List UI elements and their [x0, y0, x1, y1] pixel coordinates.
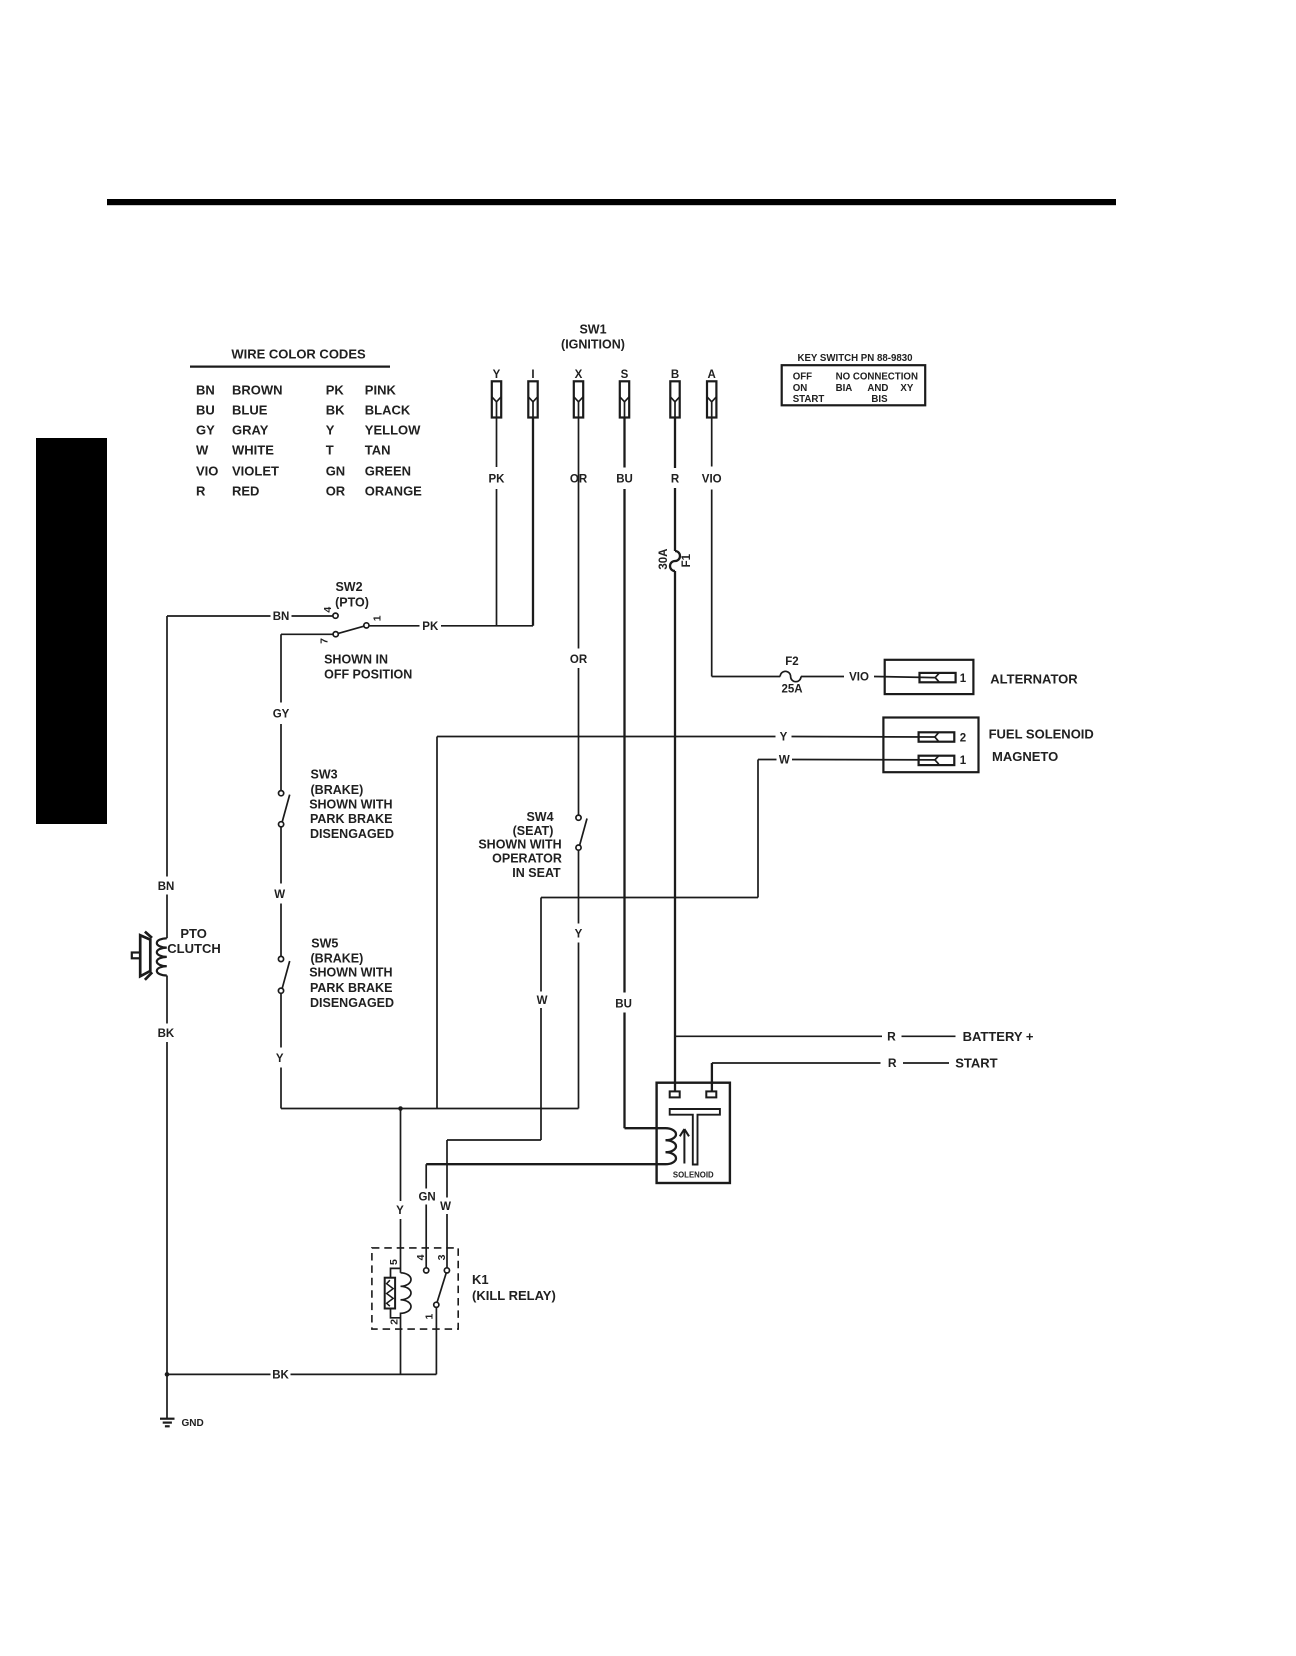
svg-text:TAN: TAN [365, 443, 391, 458]
svg-text:(IGNITION): (IGNITION) [561, 338, 625, 352]
svg-text:DISENGAGED: DISENGAGED [310, 827, 394, 841]
wire W to magneto pin 1 [758, 759, 777, 761]
wire R start riser [711, 1063, 713, 1091]
svg-text:25A: 25A [781, 684, 802, 696]
svg-text:Y: Y [575, 928, 583, 940]
svg-text:WIRE COLOR CODES: WIRE COLOR CODES [231, 347, 366, 362]
solenoid plunger T [670, 1109, 720, 1165]
svg-text:BLUE: BLUE [232, 403, 268, 418]
svg-text:WHITE: WHITE [232, 443, 274, 458]
wire I column from SW1-I (PK) [532, 418, 534, 626]
SW1 terminal S (blade connector) [620, 369, 629, 418]
svg-text:BIS: BIS [871, 394, 888, 405]
magneto pin 1 [919, 755, 967, 767]
svg-text:SHOWN IN: SHOWN IN [324, 652, 388, 666]
wire BN riser (left) [166, 616, 168, 877]
svg-text:X: X [575, 369, 583, 381]
svg-text:BN: BN [273, 611, 290, 623]
svg-text:R: R [887, 1030, 896, 1044]
svg-text:1: 1 [424, 1314, 436, 1320]
svg-text:PARK BRAKE: PARK BRAKE [310, 981, 392, 995]
svg-text:4: 4 [415, 1254, 427, 1260]
wire A column from SW1-A (VIO) [711, 418, 713, 467]
svg-text:Y: Y [396, 1205, 404, 1217]
svg-text:BU: BU [196, 403, 215, 418]
svg-text:VIO: VIO [196, 464, 218, 479]
svg-text:S: S [621, 369, 629, 381]
switch SW3 (BRAKE) [279, 791, 290, 827]
svg-text:SW4: SW4 [526, 810, 553, 824]
SW2 pin 1 [364, 623, 369, 628]
page header rule [107, 199, 1116, 205]
SW1 terminal B (blade connector) [670, 369, 679, 418]
left black tab bar [36, 438, 107, 824]
K1 coil [401, 1273, 412, 1375]
svg-text:7: 7 [319, 638, 331, 644]
svg-text:(KILL RELAY): (KILL RELAY) [472, 1288, 556, 1303]
svg-text:FUEL SOLENOID: FUEL SOLENOID [989, 726, 1094, 741]
svg-text:PK: PK [422, 621, 439, 633]
SW2 pin 4 [333, 613, 338, 618]
svg-text:K1: K1 [472, 1272, 489, 1287]
SW5 labels [309, 936, 394, 1010]
fuel solenoid / magneto connector box [883, 718, 978, 773]
svg-text:GY: GY [196, 423, 215, 438]
solenoid coil with BU feed and GN return [426, 1128, 676, 1164]
svg-text:IN SEAT: IN SEAT [512, 866, 561, 880]
svg-text:OR: OR [570, 654, 588, 666]
wire GY stub to SW2 pin 7 [281, 633, 333, 635]
svg-text:BK: BK [158, 1028, 175, 1040]
svg-text:W: W [537, 995, 548, 1007]
wire GN riser to K1 pin 4 [425, 1164, 427, 1188]
svg-text:PK: PK [326, 383, 345, 398]
alternator connector box [885, 660, 974, 694]
svg-text:BN: BN [196, 383, 215, 398]
svg-text:F2: F2 [785, 656, 798, 668]
wire from K1 pin 1 to ground bus [435, 1307, 437, 1374]
svg-text:(BRAKE): (BRAKE) [311, 783, 364, 797]
K1 labels [472, 1272, 556, 1303]
SW2 switch arm [338, 626, 364, 633]
wire PK from SW2 pin 1 to I column [369, 625, 419, 627]
svg-text:(SEAT): (SEAT) [513, 824, 554, 838]
svg-text:GND: GND [182, 1418, 204, 1429]
svg-text:OR: OR [326, 484, 346, 499]
svg-text:Y: Y [326, 423, 335, 438]
wire R to START [712, 1062, 881, 1064]
svg-text:R: R [888, 1056, 897, 1070]
svg-text:AND: AND [867, 383, 888, 394]
svg-text:PARK BRAKE: PARK BRAKE [310, 812, 392, 826]
svg-text:VIOLET: VIOLET [232, 464, 279, 479]
svg-text:RED: RED [232, 484, 259, 499]
svg-text:Y: Y [780, 732, 788, 744]
svg-text:ALTERNATOR: ALTERNATOR [990, 671, 1078, 686]
SW1 terminal I (blade connector) [528, 369, 537, 418]
svg-text:YELLOW: YELLOW [365, 423, 421, 438]
svg-text:OFF POSITION: OFF POSITION [324, 667, 412, 681]
svg-text:SHOWN WITH: SHOWN WITH [309, 965, 392, 979]
svg-text:PTO: PTO [180, 926, 207, 941]
svg-text:R: R [671, 474, 680, 486]
K1 resistor (parallel) [385, 1268, 401, 1317]
SW1 terminal A (blade connector) [707, 369, 716, 418]
svg-text:START: START [793, 394, 825, 405]
svg-text:ON: ON [793, 383, 808, 394]
legend underline [190, 366, 390, 368]
solenoid plunger arrow [680, 1129, 689, 1164]
solenoid battery pin [670, 1091, 680, 1097]
svg-text:W: W [779, 755, 790, 767]
wire Y riser from fuel solenoid run down [436, 737, 438, 1109]
svg-text:(BRAKE): (BRAKE) [311, 951, 364, 965]
wire S column from SW1-S (BU) [623, 418, 625, 468]
junction Y tap [398, 1106, 403, 1111]
svg-text:VIO: VIO [702, 474, 722, 486]
wire Y riser to K1 pin 5 [400, 1109, 402, 1202]
wire Y below SW5 [280, 993, 282, 1047]
svg-text:BATTERY +: BATTERY + [963, 1029, 1034, 1044]
wire VIO corner to F2 [711, 676, 713, 678]
wire BN from left riser to SW2 pin 4 [167, 615, 271, 617]
PTO clutch [132, 932, 167, 980]
svg-text:B: B [671, 369, 679, 381]
PTO CLUTCH labels [167, 926, 220, 956]
svg-text:MAGNETO: MAGNETO [992, 749, 1058, 764]
svg-text:START: START [955, 1056, 997, 1071]
svg-text:F1: F1 [681, 553, 693, 567]
SW1 terminal X (blade connector) [574, 369, 583, 418]
svg-text:ORANGE: ORANGE [365, 484, 422, 499]
svg-text:BN: BN [158, 881, 175, 893]
svg-text:BROWN: BROWN [232, 383, 283, 398]
svg-text:SHOWN WITH: SHOWN WITH [478, 837, 561, 851]
fuse F2 25A [780, 656, 802, 696]
starter solenoid box [657, 1083, 730, 1183]
svg-text:GREEN: GREEN [365, 464, 411, 479]
svg-text:4: 4 [322, 607, 334, 613]
wire R to BATTERY + [675, 1035, 882, 1037]
svg-text:GY: GY [273, 709, 290, 721]
svg-text:NO CONNECTION: NO CONNECTION [836, 372, 918, 383]
svg-text:2: 2 [960, 732, 966, 744]
svg-text:W: W [196, 443, 209, 458]
wire BK riser (left) [166, 976, 168, 1024]
svg-text:BK: BK [272, 1370, 289, 1382]
svg-text:SW2: SW2 [335, 580, 362, 594]
svg-text:W: W [440, 1201, 451, 1213]
alternator pin 1 [920, 673, 967, 685]
SW3 labels [309, 768, 394, 841]
svg-text:GN: GN [418, 1192, 435, 1204]
K1 pin 4 [424, 1268, 429, 1273]
svg-text:SW1: SW1 [579, 323, 606, 337]
K1 switch arm [437, 1273, 446, 1302]
junction BK/ground [165, 1372, 170, 1377]
svg-text:30A: 30A [658, 549, 670, 570]
wire BK bottom bus [167, 1373, 271, 1375]
svg-text:1: 1 [372, 615, 384, 621]
wire Y below SW4 [578, 850, 580, 923]
svg-text:BLACK: BLACK [365, 403, 411, 418]
relay K1 dashed enclosure [372, 1248, 458, 1329]
svg-text:DISENGAGED: DISENGAGED [310, 996, 394, 1010]
svg-text:KEY SWITCH PN 88-9830: KEY SWITCH PN 88-9830 [797, 353, 912, 364]
svg-text:1: 1 [960, 673, 967, 685]
SW2 pin 7 [333, 632, 338, 637]
svg-text:CLUTCH: CLUTCH [167, 941, 220, 956]
svg-text:OPERATOR: OPERATOR [492, 851, 562, 865]
svg-text:Y: Y [493, 369, 501, 381]
SW1 terminal Y (blade connector) [492, 369, 501, 418]
svg-text:PINK: PINK [365, 383, 397, 398]
wire W between SW3 and SW5 [280, 827, 282, 884]
svg-text:W: W [274, 889, 285, 901]
svg-text:GRAY: GRAY [232, 423, 269, 438]
svg-text:BIA: BIA [836, 383, 853, 394]
K1 pin 1 [434, 1302, 439, 1307]
switch SW4 (SEAT) [576, 815, 587, 850]
wire Y to fuel solenoid pin 2 [437, 736, 776, 738]
svg-text:R: R [196, 484, 206, 499]
svg-text:(PTO): (PTO) [335, 596, 369, 610]
svg-text:OFF: OFF [793, 372, 812, 383]
svg-text:T: T [326, 443, 334, 458]
wire B column from SW1-B (R) [674, 418, 676, 469]
svg-text:PK: PK [489, 474, 506, 486]
svg-text:5: 5 [388, 1259, 400, 1265]
svg-text:GN: GN [326, 464, 346, 479]
svg-text:VIO: VIO [849, 672, 869, 684]
wire GY from SW2 pin 7 down [280, 634, 282, 702]
key switch table text [793, 372, 918, 406]
SW4 labels [478, 810, 562, 880]
key switch table box [782, 365, 926, 405]
svg-text:A: A [708, 369, 716, 381]
solenoid start pin [706, 1091, 716, 1097]
switch SW5 (BRAKE) [278, 956, 289, 993]
svg-text:1: 1 [960, 755, 967, 767]
fuel solenoid pin 2 [919, 732, 967, 744]
svg-text:I: I [531, 369, 534, 381]
ground symbol [160, 1419, 175, 1427]
wire bottom-left Y bus [281, 1108, 579, 1110]
svg-text:3: 3 [436, 1254, 448, 1260]
svg-text:Y: Y [276, 1053, 284, 1065]
svg-text:SHOWN WITH: SHOWN WITH [309, 798, 392, 812]
svg-text:BK: BK [326, 403, 345, 418]
svg-text:SOLENOID: SOLENOID [673, 1171, 714, 1180]
wire W route from magneto [757, 760, 759, 898]
svg-text:SW3: SW3 [311, 768, 338, 782]
svg-text:SW5: SW5 [311, 936, 338, 950]
svg-text:XY: XY [900, 383, 913, 394]
svg-text:BU: BU [615, 998, 632, 1010]
svg-text:2: 2 [388, 1319, 400, 1325]
wire X column from SW1-X (OR) [578, 418, 580, 649]
svg-text:BU: BU [616, 474, 633, 486]
wire Y column from SW1-Y (PK) [496, 418, 498, 468]
K1 pin 3 [444, 1268, 449, 1273]
fuse F1 30A [658, 549, 693, 571]
